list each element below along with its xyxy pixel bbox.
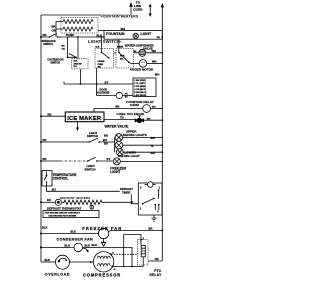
svg-text:ARM SW: ARM SW — [74, 62, 82, 65]
wire auger to bus — [147, 62, 163, 64]
svg-text:GY: GY — [107, 157, 111, 161]
switch chute door — [67, 56, 69, 58]
lamp upper refrig 1 — [115, 134, 123, 142]
switch freezer light — [87, 160, 89, 162]
wire run riser to PTC — [124, 235, 141, 267]
wire freezer lamp to bus — [120, 160, 162, 162]
svg-text:CRUSH: CRUSH — [98, 61, 105, 63]
node junction — [103, 36, 105, 38]
motor auger — [139, 60, 147, 68]
svg-text:ICE MAKER: ICE MAKER — [67, 116, 102, 122]
svg-text:BLK: BLK — [45, 258, 51, 262]
PTC element — [141, 245, 145, 256]
valve water (ice maker) — [135, 116, 144, 123]
resistor fountain heater 2 — [63, 27, 93, 31]
compressor — [93, 252, 113, 272]
wire B exit to auger — [129, 62, 139, 63]
wire door solenoid feed — [97, 84, 117, 96]
motor condenser fan — [74, 243, 83, 252]
svg-text:BU: BU — [47, 198, 51, 202]
svg-text:CARD: CARD — [130, 103, 140, 107]
label LIGHT SWITCH — [87, 131, 98, 138]
switch refrig light — [88, 141, 90, 143]
svg-text:BU: BU — [103, 138, 107, 142]
wire condenser fan row — [41, 246, 74, 248]
PTC relay box dashed — [137, 240, 148, 265]
wire interlock row — [41, 36, 104, 38]
left bus wire — [40, 15, 42, 262]
wire heater feed — [56, 22, 63, 38]
node junction — [101, 36, 103, 38]
svg-text:BK: BK — [116, 105, 120, 109]
label PTC RELAY — [149, 269, 162, 277]
node bus junction — [40, 36, 42, 38]
overload protector — [56, 255, 70, 269]
svg-text:WH: WH — [152, 107, 156, 109]
resistor fountain heater 1 — [63, 20, 93, 24]
svg-text:DEFROST HEATERS: DEFROST HEATERS — [60, 196, 90, 200]
svg-text:OR: OR — [62, 48, 66, 50]
svg-text:CUBE: CUBE — [98, 64, 104, 66]
svg-text:OR: OR — [155, 257, 159, 261]
label FREEZER LIGHT — [110, 166, 126, 174]
svg-text:WH: WH — [147, 118, 151, 120]
wire start dashed — [111, 253, 137, 255]
svg-text:N.O.: N.O. — [74, 66, 78, 68]
wire overload feed — [41, 261, 56, 263]
right bus wire — [161, 7, 163, 261]
svg-text:4 OR (BLK): 4 OR (BLK) — [134, 88, 146, 91]
label LIGHT SWITCH — [85, 164, 96, 171]
svg-text:REFRIG LIGHTS: REFRIG LIGHTS — [123, 133, 147, 137]
svg-text:LIGHT SWITCH: LIGHT SWITCH — [88, 39, 120, 44]
svg-text:3 PR (BRN): 3 PR (BRN) — [134, 86, 146, 88]
dispenser switch box B dashed — [116, 49, 134, 69]
svg-text:CUBE SOLENOID: CUBE SOLENOID — [117, 112, 145, 116]
svg-text:BK: BK — [104, 134, 108, 138]
label LOWER REFRIG LIGHT — [118, 151, 140, 158]
svg-text:WH: WH — [155, 73, 160, 77]
wire freezer fan row — [41, 233, 98, 235]
heater box dashed — [61, 18, 98, 34]
ground freezer fan — [103, 239, 105, 243]
switch interlock — [49, 36, 51, 38]
svg-text:WH/BK: WH/BK — [117, 47, 124, 49]
svg-text:RD: RD — [43, 138, 47, 142]
svg-text:WH: WH — [150, 136, 155, 140]
fountain delay card box — [133, 78, 156, 97]
wire lamp feed vertical — [114, 138, 116, 153]
svg-text:BLU: BLU — [65, 243, 71, 247]
svg-text:COMPRESSOR: COMPRESSOR — [83, 273, 121, 278]
wire condenser to drop — [83, 247, 132, 266]
wire water valve row — [104, 119, 137, 121]
svg-text:OVERLOAD: OVERLOAD — [45, 272, 70, 276]
svg-text:WATER VALVE: WATER VALVE — [105, 125, 129, 129]
lamp freezer light — [113, 158, 120, 165]
wire water valve to bus — [142, 119, 162, 121]
svg-text:BLK: BLK — [92, 243, 98, 247]
svg-text:5 WH (BLU): 5 WH (BLU) — [134, 92, 146, 94]
temperature control box — [42, 171, 52, 187]
node junction — [161, 36, 163, 38]
svg-text:BLK: BLK — [42, 225, 48, 229]
svg-text:WH: WH — [152, 60, 157, 64]
label TEMPERATURE CONTROL — [53, 173, 77, 181]
note box ground continuity — [43, 211, 99, 218]
svg-text:BU: BU — [104, 142, 108, 146]
wire top border — [41, 14, 131, 16]
wire bus bottom corner — [148, 260, 162, 262]
svg-text:1 BK (PNK): 1 BK (PNK) — [134, 80, 146, 82]
resistor defrost heaters — [61, 200, 131, 204]
wire temp control to timer — [47, 186, 139, 204]
ice maker box — [65, 112, 104, 122]
node junction — [77, 36, 79, 38]
wire fan to bus — [109, 230, 163, 231]
svg-text:AUGER MOTOR: AUGER MOTOR — [130, 68, 154, 72]
svg-text:WH: WH — [121, 27, 126, 31]
wire GY row — [64, 69, 133, 84]
label TO LINE CORD — [133, 1, 143, 12]
svg-text:FOUNTAIN HEATERS: FOUNTAIN HEATERS — [101, 15, 139, 19]
label DEFROST TIMER — [120, 187, 137, 194]
wire dispenser switch feeds — [78, 37, 119, 59]
svg-text:SOLENOID: SOLENOID — [96, 91, 109, 94]
node line cord double arrow — [149, 6, 151, 15]
wire defrost heater row — [41, 201, 55, 203]
svg-text:SW.: SW. — [98, 67, 102, 69]
wire ice maker feed — [41, 115, 65, 117]
ground timer — [153, 215, 155, 218]
valve water dispenser — [139, 49, 146, 56]
svg-text:TN: TN — [120, 116, 124, 120]
wire lamp3 to bus — [123, 151, 162, 153]
svg-text:CORD: CORD — [133, 7, 143, 11]
svg-text:SWITCH: SWITCH — [50, 61, 60, 64]
svg-text:USE GROUND PATH SHOWN: USE GROUND PATH SHOWN — [49, 214, 77, 217]
switch temperature control — [46, 175, 48, 177]
svg-text:BLK: BLK — [96, 47, 101, 49]
svg-text:LIGHT: LIGHT — [110, 170, 121, 174]
wire B to valve — [134, 52, 139, 54]
lamp fountain light — [133, 33, 138, 38]
svg-text:TIMER: TIMER — [122, 191, 130, 195]
solenoid door — [116, 92, 122, 98]
svg-text:RD: RD — [43, 157, 47, 161]
svg-text:BK: BK — [52, 25, 56, 29]
svg-text:RD: RD — [48, 112, 52, 116]
svg-text:C: C — [90, 261, 92, 264]
wire box A drop — [96, 68, 98, 84]
arrow hook — [84, 248, 88, 251]
node L1 arrow to line cord — [130, 7, 132, 16]
svg-text:FOR GROUND CIRCUIT CONTINUITY: FOR GROUND CIRCUIT CONTINUITY — [45, 213, 81, 215]
svg-text:WH: WH — [150, 151, 155, 155]
wire overload to compressor — [70, 261, 94, 263]
dispenser switch box A dashed — [95, 49, 114, 69]
svg-text:SWITCH: SWITCH — [87, 134, 98, 138]
wire solenoid to card — [123, 95, 134, 97]
svg-text:RELAY: RELAY — [149, 273, 162, 277]
svg-text:FOUNTAIN: FOUNTAIN — [106, 32, 125, 36]
label FOUNTAIN DELAY CARD — [126, 100, 154, 107]
svg-text:REFRIG LIGHT: REFRIG LIGHT — [118, 154, 140, 158]
svg-text:WH: WH — [157, 37, 161, 39]
svg-text:DEFROST: DEFROST — [120, 187, 133, 191]
svg-text:PK/BU: PK/BU — [66, 33, 74, 37]
wire freezer light row — [41, 160, 60, 162]
wire A to B — [114, 52, 117, 54]
wire ice maker down arrow — [77, 122, 79, 129]
wire refrig lights row — [41, 141, 115, 143]
label INTERLOCK SWITCH — [42, 40, 56, 46]
svg-text:DEFROST THERMOSTAT: DEFROST THERMOSTAT — [47, 206, 81, 210]
wire valve to bus — [146, 52, 163, 54]
svg-text:BK: BK — [62, 46, 66, 48]
wire timer pin1 — [158, 190, 160, 199]
svg-text:BLK: BLK — [85, 243, 91, 247]
solenoid cube — [143, 105, 151, 113]
thermostat defrost (disc) — [55, 199, 61, 205]
wire cube solenoid row — [94, 109, 143, 113]
svg-text:RD: RD — [43, 33, 47, 37]
lamp lower refrig — [116, 149, 123, 156]
svg-text:CONDENSER FAN: CONDENSER FAN — [57, 238, 94, 242]
node L2 arrow to line cord — [161, 3, 164, 7]
motor timer — [145, 182, 156, 188]
wire lamp1 to bus — [123, 137, 163, 139]
svg-text:OR: OR — [52, 29, 56, 33]
svg-text:SWITCH: SWITCH — [85, 167, 96, 171]
svg-text:LIGHT: LIGHT — [141, 32, 153, 36]
wire PTC bottom — [142, 257, 144, 267]
defrost timer box — [138, 183, 162, 215]
svg-text:WH: WH — [152, 49, 157, 53]
svg-text:YL: YL — [150, 144, 154, 148]
svg-text:WTR: WTR — [120, 56, 125, 58]
svg-text:SW.: SW. — [120, 58, 124, 60]
dispenser switch box C dashed — [72, 59, 88, 69]
thermostat symbol — [90, 205, 94, 209]
label DOOR SOLENOID — [96, 89, 109, 95]
svg-text:CONTROL: CONTROL — [53, 177, 69, 181]
wire run row — [112, 266, 143, 268]
svg-text:BLK: BLK — [71, 229, 77, 233]
label CHUTE DOOR SWITCH — [47, 59, 63, 65]
fountain light box — [104, 31, 162, 40]
svg-text:GY: GY — [105, 80, 109, 84]
svg-text:BR: BR — [149, 227, 153, 231]
svg-text:BU: BU — [52, 188, 56, 192]
motor freezer fan — [98, 228, 108, 238]
wire chute switch drop — [67, 37, 69, 57]
svg-text:6 BU (BLW): 6 BU (BLW) — [134, 95, 146, 97]
lamp upper refrig 2 — [115, 141, 123, 149]
svg-text:SWITCH: SWITCH — [43, 43, 53, 46]
switch timer — [142, 203, 144, 205]
wire lamp2 to bus — [123, 144, 163, 146]
wire cube solenoid to bus — [151, 108, 163, 110]
wire heater to fountain light box — [98, 30, 104, 32]
svg-text:2 YL (GRY): 2 YL (GRY) — [134, 83, 146, 85]
label UPPER REFRIG LIGHTS — [123, 130, 147, 137]
